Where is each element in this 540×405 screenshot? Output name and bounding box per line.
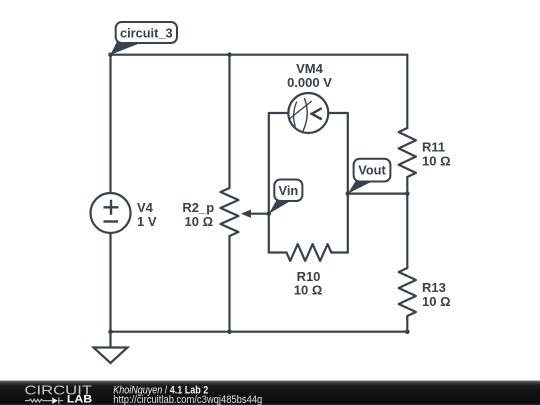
svg-text:circuit_3: circuit_3 bbox=[120, 25, 173, 40]
wire R10 left lead bbox=[269, 251, 287, 253]
resistor R11 zigzag bbox=[399, 128, 416, 177]
svg-text:10 Ω: 10 Ω bbox=[422, 154, 451, 169]
node Vout junction bbox=[346, 191, 351, 196]
svg-text:R13: R13 bbox=[422, 280, 446, 295]
wire left branch upper bbox=[109, 55, 111, 193]
wire right branch upper bbox=[406, 55, 408, 128]
voltage source V4 bbox=[91, 193, 131, 233]
wire center branch lower bbox=[228, 236, 230, 332]
svg-text:R2_p: R2_p bbox=[182, 200, 214, 215]
svg-text:10 Ω: 10 Ω bbox=[294, 283, 323, 298]
svg-text:VM4: VM4 bbox=[296, 61, 324, 76]
node at bottom-center bbox=[227, 329, 232, 334]
label R13 value bbox=[422, 280, 451, 309]
wire Vout horizontal net bbox=[348, 193, 408, 195]
wire right branch middle bbox=[406, 177, 408, 268]
svg-text:R11: R11 bbox=[422, 140, 445, 155]
resistor R13 zigzag bbox=[399, 268, 416, 316]
node label circuit_3 flag bbox=[111, 22, 178, 55]
node R11 bottom junction bbox=[405, 191, 410, 196]
ground bbox=[94, 332, 128, 363]
footer bar bbox=[0, 381, 540, 405]
wire wiper lead bbox=[247, 213, 269, 215]
wire right branch lower bbox=[406, 316, 408, 332]
resistor R2_p zigzag bbox=[221, 188, 239, 236]
svg-text:V4: V4 bbox=[137, 200, 154, 215]
svg-text:0.000 V: 0.000 V bbox=[287, 75, 332, 90]
wire voltmeter right vertical through Vout bbox=[328, 113, 348, 253]
svg-text:1 V: 1 V bbox=[137, 214, 157, 229]
wire top horizontal net bbox=[111, 54, 408, 56]
label R10 value bbox=[294, 269, 323, 298]
node at bottom-right bbox=[405, 329, 410, 334]
svg-text:10 Ω: 10 Ω bbox=[185, 214, 214, 229]
svg-text:http://circuitlab.com/c3wqj485: http://circuitlab.com/c3wqj485bs44g bbox=[113, 394, 262, 405]
node at top-left bbox=[108, 52, 113, 57]
svg-text:LAB: LAB bbox=[67, 394, 93, 405]
wire R10 right lead bbox=[331, 251, 348, 253]
resistor R10 zigzag bbox=[287, 244, 332, 261]
voltmeter VM4 bbox=[288, 93, 328, 133]
label R2_p value bbox=[182, 200, 214, 229]
node Vin junction bbox=[267, 211, 272, 216]
node label Vin flag bbox=[269, 180, 303, 214]
wire center branch upper bbox=[228, 55, 230, 188]
node at top-center bbox=[227, 52, 232, 57]
wire left branch lower bbox=[109, 233, 111, 332]
label R11 value bbox=[422, 140, 451, 169]
node at bottom-left ground bbox=[108, 329, 113, 334]
svg-text:10 Ω: 10 Ω bbox=[422, 294, 451, 309]
label VM4 value bbox=[287, 61, 332, 90]
svg-text:Vin: Vin bbox=[279, 183, 299, 198]
label V4 value bbox=[137, 200, 157, 229]
wire bottom horizontal net bbox=[111, 331, 408, 333]
footer logo resistor-diode glyph bbox=[25, 397, 63, 404]
wire voltmeter left vertical bbox=[269, 113, 289, 253]
node label Vout flag bbox=[348, 159, 391, 194]
wiper arrow of R2_p bbox=[241, 210, 251, 218]
svg-text:Vout: Vout bbox=[358, 163, 386, 178]
